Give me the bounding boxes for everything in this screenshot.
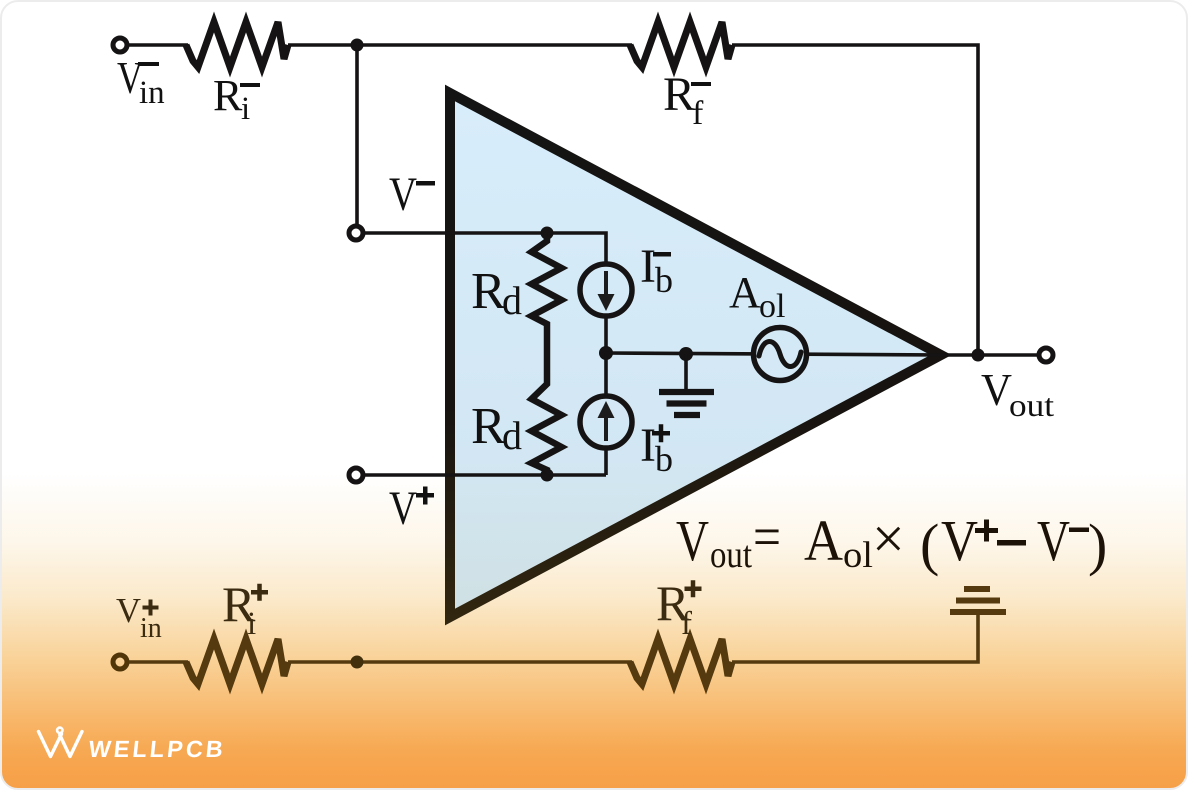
- wire: junction down to V- terminal: [355, 45, 359, 226]
- label Rd upper: [471, 263, 522, 323]
- node: output junction: [972, 349, 985, 362]
- terminal Vin-: [113, 38, 127, 52]
- wire: Rf- to output node (top right corner): [732, 45, 978, 352]
- svg-text:R: R: [213, 71, 243, 120]
- svg-text:R: R: [471, 263, 506, 320]
- svg-text:V: V: [116, 591, 141, 630]
- svg-text:V: V: [981, 364, 1012, 415]
- svg-text:in: in: [139, 75, 165, 111]
- wire: Ri+ to Rf+: [288, 660, 632, 664]
- label Ib+: [640, 419, 673, 479]
- svg-text:f: f: [681, 606, 692, 642]
- label V+: [389, 482, 434, 535]
- wire: V+ terminal down to bottom rail (fades to brown): [355, 483, 359, 662]
- label Aol: [729, 268, 785, 325]
- label Vout: [981, 364, 1054, 423]
- logo WELLPCB icon: [39, 728, 83, 757]
- node on V- wire (Rd tap): [541, 227, 554, 240]
- terminal Vout: [1039, 348, 1053, 362]
- svg-text:R: R: [471, 398, 506, 455]
- svg-text:V: V: [389, 482, 417, 535]
- current source Ib- (circle, down arrow): [580, 264, 632, 316]
- label Rf+: [656, 575, 702, 642]
- wire: mid node to Ib+ and to V+ rail: [604, 353, 608, 475]
- svg-text:I: I: [640, 240, 656, 293]
- svg-text:d: d: [502, 413, 522, 458]
- svg-text:×: ×: [872, 506, 905, 571]
- formula Vout = Aol x (V+ - V-): [676, 504, 1107, 577]
- svg-text:d: d: [502, 278, 522, 323]
- ground (inside op-amp): [659, 354, 714, 415]
- label Ib-: [640, 240, 673, 300]
- ground (bottom right, inverted): [950, 589, 1006, 612]
- source Aol (sine source): [754, 328, 807, 381]
- resistor Ri+: [186, 639, 288, 684]
- label Ri-: [213, 71, 260, 127]
- svg-text:(: (: [920, 512, 939, 577]
- svg-text:R: R: [663, 68, 695, 121]
- label V-: [389, 168, 435, 221]
- wire: Rf+ to ground (bottom right corner): [732, 612, 978, 662]
- svg-text:b: b: [655, 439, 673, 479]
- svg-text:): ): [1088, 512, 1107, 577]
- label Vin+: [116, 591, 162, 644]
- current source Ib+ (circle, up arrow): [580, 396, 632, 448]
- svg-text:out: out: [710, 534, 752, 576]
- svg-text:=: =: [753, 504, 781, 569]
- wire: Vin+ to Ri+: [129, 660, 188, 664]
- node on V+ wire (Rd tap): [541, 469, 554, 482]
- node: inverting input junction: [351, 39, 364, 52]
- wire: V+ terminal into op-amp: [364, 473, 606, 477]
- wire: Ri- to Rf- along top: [288, 43, 632, 47]
- svg-text:A: A: [729, 268, 761, 317]
- resistor Ri-: [186, 22, 288, 67]
- svg-text:i: i: [241, 91, 250, 127]
- svg-text:ol: ol: [759, 288, 785, 325]
- node: non-inverting junction: [351, 656, 364, 669]
- wire: Vin- terminal to Ri-: [129, 43, 188, 47]
- resistor Rd (lower, vertical): [532, 353, 562, 475]
- wire: Ib- to mid node: [604, 316, 608, 353]
- svg-text:i: i: [247, 606, 256, 642]
- svg-text:in: in: [140, 613, 162, 644]
- terminal Vin+: [113, 655, 127, 669]
- label Rd lower: [471, 398, 522, 458]
- node: ground tap: [679, 347, 693, 361]
- svg-text:I: I: [640, 419, 656, 472]
- svg-text:V: V: [1037, 508, 1070, 573]
- resistor Rf-: [630, 22, 732, 67]
- label Ri+: [222, 576, 268, 642]
- label Vin-: [117, 53, 165, 111]
- terminal V-: [349, 226, 363, 240]
- resistor Rd (upper, vertical): [532, 233, 562, 353]
- svg-text:b: b: [655, 260, 673, 300]
- resistor Rf+: [630, 639, 732, 684]
- svg-text:V: V: [676, 508, 709, 573]
- wire: V- terminal into op-amp: [364, 233, 606, 263]
- op-amp U1 triangle: [450, 93, 941, 617]
- logo WELLPCB text: [87, 736, 227, 762]
- svg-text:V: V: [941, 508, 978, 573]
- svg-text:WELLPCB: WELLPCB: [87, 736, 227, 762]
- label Rf-: [663, 68, 711, 132]
- svg-text:out: out: [1009, 387, 1054, 423]
- svg-text:ol: ol: [843, 535, 873, 576]
- svg-text:A: A: [804, 508, 843, 573]
- node: mid node: [599, 346, 613, 360]
- wire: mid node to apex and out to Vout: [606, 353, 1038, 355]
- svg-text:V: V: [389, 168, 417, 221]
- terminal V+: [349, 468, 363, 482]
- svg-text:f: f: [692, 95, 704, 132]
